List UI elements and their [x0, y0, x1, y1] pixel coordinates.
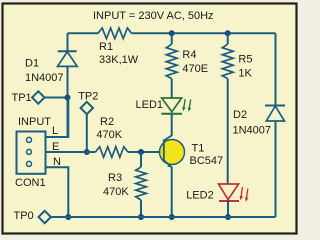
wire R5 upper lead: [227, 33, 229, 44]
svg-text:TP0: TP0: [14, 210, 34, 222]
junction node TP1/D1/L: [65, 95, 71, 101]
resistor R5: [222, 44, 252, 79]
svg-text:33K,1W: 33K,1W: [99, 54, 139, 66]
wire right branch lower: [275, 121, 277, 217]
junction node top rail R5: [225, 30, 231, 36]
wire right branch upper: [275, 33, 277, 105]
svg-text:470E: 470E: [182, 63, 208, 75]
LED LED2 red: [186, 184, 248, 202]
svg-text:R4: R4: [182, 49, 196, 61]
svg-text:T1: T1: [192, 143, 205, 155]
wire bottom rail: [51, 216, 276, 218]
svg-text:TP2: TP2: [78, 91, 98, 103]
svg-text:D1: D1: [25, 58, 39, 70]
svg-text:R3: R3: [108, 172, 122, 184]
wire top rail right segment: [132, 32, 276, 34]
svg-text:1K: 1K: [238, 68, 252, 80]
transistor T1 BC547: [160, 135, 224, 167]
diode D1 1N4007: [25, 51, 77, 84]
svg-text:470K: 470K: [96, 129, 122, 141]
junction node N/bottom rail: [65, 214, 71, 220]
connector CON1: [15, 116, 51, 189]
resistor R1: [98, 28, 139, 66]
junction node top rail R4: [169, 30, 175, 36]
LED LED1 green: [136, 98, 192, 114]
wire D1 branch vertical: [67, 33, 69, 137]
test point TP1: [12, 91, 45, 104]
svg-text:1N4007: 1N4007: [233, 125, 272, 137]
wire R3 lower lead: [140, 200, 142, 217]
wire R4 to LED1: [171, 79, 173, 98]
svg-text:INPUT = 230V AC, 50Hz: INPUT = 230V AC, 50Hz: [93, 10, 214, 22]
wire R2 to base: [128, 151, 164, 153]
wire T1 emitter to bottom rail: [171, 167, 173, 218]
junction node R3/base: [138, 149, 144, 155]
junction node LED2/bottom rail: [225, 214, 231, 220]
svg-text:BC547: BC547: [190, 155, 224, 167]
wire R5 to LED2: [227, 79, 229, 184]
svg-text:R2: R2: [100, 116, 114, 128]
svg-text:LED1: LED1: [136, 99, 164, 111]
wire TP2 down to E line: [86, 114, 88, 152]
svg-text:CON1: CON1: [15, 177, 46, 189]
svg-text:R1: R1: [99, 41, 113, 53]
junction node TP2/E: [84, 149, 90, 155]
svg-text:1N4007: 1N4007: [25, 72, 64, 84]
svg-text:470K: 470K: [103, 186, 129, 198]
test point TP2: [78, 91, 98, 115]
svg-text:R5: R5: [238, 54, 252, 66]
junction node R3/bottom rail: [138, 214, 144, 220]
resistor R3: [103, 167, 146, 200]
resistor R4: [166, 44, 208, 78]
svg-text:L: L: [52, 125, 58, 137]
svg-text:D2: D2: [233, 109, 247, 121]
wire N pin down to bottom rail: [46, 167, 69, 217]
wire L pin to D1 branch: [46, 98, 69, 138]
wire top rail left segment: [68, 32, 99, 34]
wire R4 upper lead: [171, 33, 173, 44]
test point TP0: [14, 210, 51, 223]
junction node emitter/bottom rail: [169, 214, 175, 220]
wire TP1 to junction: [45, 97, 68, 99]
svg-text:TP1: TP1: [12, 92, 32, 104]
wire R3 upper lead: [140, 152, 142, 167]
resistor R2: [96, 116, 128, 157]
svg-text:LED2: LED2: [186, 190, 214, 202]
svg-text:INPUT: INPUT: [18, 116, 51, 128]
wire E pin to R2: [46, 151, 96, 153]
wire LED1 to T1 collector: [171, 114, 173, 136]
diode D2 1N4007: [233, 106, 286, 137]
wire LED2 to bottom rail: [227, 200, 229, 218]
